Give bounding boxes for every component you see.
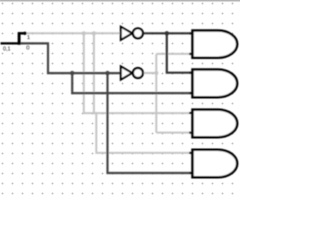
svg-text:0: 0: [26, 45, 29, 51]
svg-text:1: 1: [27, 35, 30, 41]
svg-text:0,1: 0,1: [3, 46, 11, 52]
